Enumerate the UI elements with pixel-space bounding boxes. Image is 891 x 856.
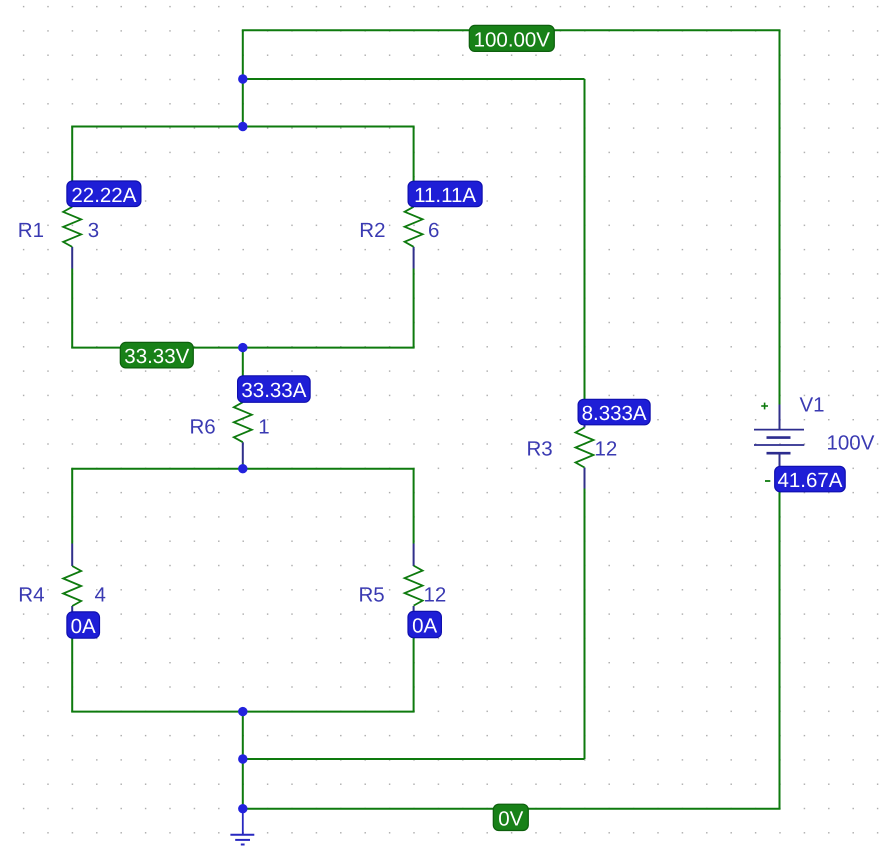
- svg-text:0V: 0V: [498, 807, 523, 830]
- svg-text:R2: R2: [359, 219, 385, 242]
- svg-text:4: 4: [95, 584, 106, 607]
- svg-text:1: 1: [258, 416, 269, 439]
- svg-text:11.11A: 11.11A: [414, 184, 476, 207]
- svg-text:R4: R4: [18, 584, 44, 607]
- svg-text:12: 12: [424, 584, 447, 607]
- svg-text:R1: R1: [18, 219, 44, 242]
- svg-text:33.33V: 33.33V: [124, 345, 189, 368]
- svg-text:R3: R3: [527, 438, 553, 461]
- svg-text:12: 12: [595, 438, 618, 461]
- svg-text:R6: R6: [190, 416, 216, 439]
- svg-text:3: 3: [88, 219, 99, 242]
- svg-text:100.00V: 100.00V: [474, 28, 551, 51]
- svg-text:41.67A: 41.67A: [778, 469, 843, 492]
- svg-text:22.22A: 22.22A: [71, 184, 136, 207]
- svg-text:R5: R5: [359, 584, 385, 607]
- svg-text:V1: V1: [800, 394, 825, 417]
- svg-text:0A: 0A: [412, 615, 437, 638]
- svg-text:100V: 100V: [827, 432, 875, 455]
- svg-text:8.333A: 8.333A: [582, 402, 647, 425]
- svg-text:6: 6: [428, 219, 439, 242]
- svg-text:0A: 0A: [71, 615, 96, 638]
- svg-text:33.33A: 33.33A: [241, 379, 306, 402]
